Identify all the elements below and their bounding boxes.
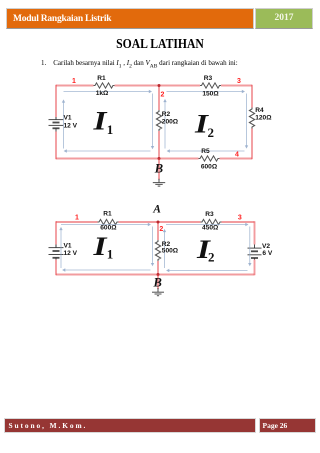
resistor R2 (circuit2) — [155, 240, 160, 261]
svg-text:R2: R2 — [162, 111, 171, 118]
footer page bar — [259, 418, 316, 433]
wire: circuit1 middle branch (node2 - nodeB) — [158, 86, 160, 159]
svg-text:120Ω: 120Ω — [255, 115, 272, 122]
svg-text:V1: V1 — [64, 242, 72, 249]
loop I1 arrow: top segment — [64, 90, 153, 93]
header orange bar — [6, 8, 254, 29]
resistor R3 — [200, 83, 221, 88]
wire: circuit2 bottom rail — [56, 274, 255, 276]
header title text — [13, 14, 253, 24]
wire: circuit1 left rail — [55, 85, 57, 159]
wire: circuit1 bottom rail — [56, 158, 252, 160]
svg-text:1: 1 — [72, 78, 76, 85]
label R5 — [201, 148, 218, 170]
current label I2 (circuit1) — [194, 110, 214, 140]
wire: circuit1 ground stub — [158, 159, 160, 183]
svg-text:B: B — [153, 276, 162, 290]
loop I2 arrow: top segment — [167, 90, 246, 93]
loop I1 arrow: left segment (circuit2) — [59, 227, 62, 268]
svg-text:3: 3 — [237, 78, 241, 85]
footer page number — [263, 421, 288, 430]
resistor R4 — [249, 108, 254, 129]
battery V1 (circuit2) — [49, 245, 64, 260]
current label I2 (circuit2) — [196, 235, 215, 264]
svg-text:500Ω: 500Ω — [162, 248, 179, 255]
svg-text:450Ω: 450Ω — [202, 225, 219, 232]
label V1 (circuit2) — [64, 242, 78, 257]
label V1 (circuit1) — [64, 114, 78, 129]
svg-text:6 V: 6 V — [262, 250, 272, 257]
label R1 — [96, 75, 109, 97]
svg-text:R5: R5 — [201, 148, 210, 155]
loop I2 arrow: top segment (circuit2) — [166, 223, 249, 226]
loop I1 arrow: top segment (circuit2) — [61, 223, 151, 226]
svg-text:600Ω: 600Ω — [201, 163, 218, 170]
wire: circuit2 top rail (node1 - node3) — [56, 221, 255, 223]
svg-text:600Ω: 600Ω — [100, 225, 117, 232]
svg-text:12 V: 12 V — [64, 122, 78, 129]
loop I1 arrow: bottom segment — [64, 149, 151, 152]
resistor R1 — [94, 83, 115, 88]
svg-text:2: 2 — [159, 226, 163, 233]
loop I2 arrow: left segment — [163, 99, 166, 149]
svg-text:R1: R1 — [103, 210, 112, 217]
svg-text:I: I — [92, 232, 108, 261]
loop I2 arrow: bottom segment (circuit2) — [166, 269, 247, 272]
document title — [22, 36, 299, 52]
svg-text:1: 1 — [75, 214, 79, 221]
label R3 (circuit2) — [202, 211, 219, 232]
svg-text:12 V: 12 V — [64, 250, 78, 257]
resistor R3 (circuit2) — [201, 219, 222, 224]
wire: circuit2 middle branch (nodeA - nodeB) — [157, 222, 159, 275]
resistor R2 — [156, 110, 161, 131]
svg-text:150Ω: 150Ω — [202, 91, 219, 98]
label R2 — [162, 111, 179, 126]
loop I2 arrow: left segment (circuit2) — [163, 229, 166, 268]
loop I1 arrow: right segment — [151, 94, 154, 150]
wire: circuit1 right rail — [251, 85, 253, 159]
svg-text:V1: V1 — [64, 114, 72, 121]
label R4 — [255, 107, 272, 122]
loop I2 arrow: right segment — [245, 94, 248, 149]
loop I2 arrow: right segment (circuit2) — [248, 227, 251, 267]
label R1 (circuit2) — [100, 210, 117, 231]
wire: circuit1 top rail (node1 - node3) — [56, 85, 252, 87]
svg-text:2: 2 — [208, 250, 215, 265]
wire: circuit2 left rail — [55, 221, 57, 275]
svg-text:4: 4 — [235, 151, 239, 158]
node B junction dot — [158, 157, 161, 160]
loop I1 arrow: left segment — [62, 99, 65, 148]
svg-text:I: I — [92, 107, 108, 136]
wire: circuit2 ground stub — [157, 275, 159, 292]
resistor R5 — [199, 156, 220, 161]
loop I1 arrow: bottom segment (circuit2) — [62, 268, 150, 271]
label R2 (circuit2) — [162, 241, 179, 254]
header year green bar — [255, 8, 313, 29]
wire: circuit2 right rail — [254, 221, 256, 275]
svg-text:R3: R3 — [205, 211, 214, 218]
svg-text:B: B — [154, 162, 163, 176]
svg-text:R3: R3 — [204, 75, 213, 82]
node 2 junction dot — [158, 84, 161, 87]
loop I1 arrow: right segment (circuit2) — [151, 227, 154, 267]
label V2 (circuit2) — [262, 243, 273, 257]
svg-text:3: 3 — [238, 214, 242, 221]
node B junction dot (circuit2) — [157, 273, 160, 276]
svg-text:R1: R1 — [97, 75, 106, 82]
svg-text:A: A — [152, 203, 161, 215]
node A junction dot — [157, 221, 160, 224]
svg-text:2: 2 — [208, 125, 215, 140]
battery V1 (circuit1) — [49, 117, 64, 132]
ground symbol circuit1 — [153, 183, 165, 187]
current label I1 (circuit2) — [92, 232, 113, 261]
svg-text:200Ω: 200Ω — [162, 119, 179, 126]
loop I2 arrow: bottom segment — [167, 149, 245, 152]
svg-text:R4: R4 — [255, 107, 264, 114]
current label I1 (circuit1) — [92, 107, 113, 137]
footer left maroon bar — [4, 418, 256, 433]
svg-text:1: 1 — [107, 247, 114, 262]
ground symbol circuit2 — [152, 292, 164, 296]
svg-text:1kΩ: 1kΩ — [96, 90, 109, 97]
label R3 — [202, 75, 219, 97]
svg-text:1: 1 — [107, 122, 114, 137]
battery V2 (circuit2) — [248, 245, 262, 260]
footer author text — [9, 421, 88, 430]
resistor R1 (circuit2) — [98, 219, 119, 224]
svg-text:2: 2 — [161, 92, 165, 99]
numbered problem text — [41, 59, 317, 69]
